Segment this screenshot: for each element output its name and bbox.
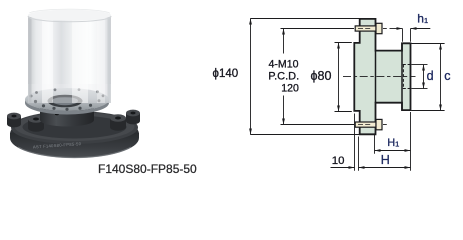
phi80 arrows [337, 43, 340, 49]
photo: holder hub body below top face [40, 108, 94, 127]
dim phi80 line [338, 43, 340, 112]
dim c extension top [411, 43, 444, 45]
dim h1 left line [390, 28, 403, 30]
dim d line [423, 65, 425, 89]
svg-text:F140S80-FP85-50: F140S80-FP85-50 [98, 162, 197, 176]
center bore [48, 95, 83, 108]
h1 arrows (pointing inward at extensions) [397, 27, 403, 30]
photo: base flange (dark metal) [10, 111, 139, 158]
svg-text:H1: H1 [387, 137, 399, 149]
extension plate left face down [354, 114, 356, 171]
photo: bolt boss back-left [7, 113, 21, 128]
photo: bolt boss back-right [126, 110, 140, 125]
svg-text:ϕ140: ϕ140 [213, 68, 239, 80]
bolt M10 top [355, 23, 382, 33]
dim PCD line upper segment [283, 29, 285, 54]
bore hidden lines (d) [403, 65, 410, 89]
section boundary hub/lip [401, 43, 403, 110]
dim h1 extension left [402, 29, 404, 42]
bolt axis stub bottom [383, 124, 387, 126]
H1 arrows [375, 149, 381, 152]
svg-text:10: 10 [332, 155, 345, 167]
screw holes on face [30, 95, 33, 98]
svg-text:h1: h1 [417, 11, 428, 25]
photo: clear tube wall [28, 15, 111, 103]
dim c extension bottom [411, 110, 444, 112]
dim d extension bottom [412, 88, 428, 90]
dimension texts [213, 58, 345, 167]
bolt axis stub top [383, 28, 387, 30]
H arrows [359, 166, 365, 169]
svg-text:P.C.D.: P.C.D. [268, 70, 299, 82]
dim phi80 extension bottom [335, 111, 352, 113]
dim phi140 extension top [250, 18, 365, 20]
d arrows [422, 65, 425, 71]
dim H line [359, 167, 411, 169]
svg-text:ϕ80: ϕ80 [311, 69, 332, 83]
extension boss face down [358, 137, 360, 171]
dim h1 extension right [410, 29, 412, 42]
phi140 top/bottom arrows [249, 19, 252, 25]
dim c line [440, 44, 442, 111]
bolt M10 bottom [355, 119, 382, 129]
dim phi140 line [250, 19, 252, 135]
dim d extension top [412, 64, 428, 66]
extension lip right down [410, 112, 412, 171]
svg-text:4-M10: 4-M10 [269, 58, 299, 70]
PCD arrows [282, 29, 285, 35]
10 arrow [349, 166, 355, 169]
dim h1 right line [411, 28, 431, 30]
dim PCD extension bottom (bolt axis) [281, 124, 355, 126]
c arrows [439, 44, 442, 50]
photo: holder top face (seen through clear tube) [25, 88, 109, 115]
dim 10 line [331, 167, 355, 169]
svg-text:120: 120 [281, 82, 299, 94]
dim PCD line lower segment [283, 96, 285, 125]
flange cross-section body [354, 19, 410, 134]
dim H1 line [375, 150, 411, 152]
svg-text:c: c [444, 69, 450, 83]
centerline [343, 76, 416, 78]
svg-text:H: H [381, 153, 390, 167]
photo: tube reflections over face [28, 9, 111, 103]
arrowheads [249, 19, 442, 169]
photo: bolt boss front-right [110, 114, 126, 131]
extension bolt head down [374, 132, 376, 154]
photo: bolt boss front-left [28, 115, 44, 132]
section boundary plate/hub [375, 51, 377, 103]
dim phi80 extension top [335, 42, 352, 44]
dim phi140 extension bottom [250, 134, 365, 136]
svg-text:d: d [427, 69, 434, 83]
dim PCD extension top (bolt axis) [281, 28, 355, 30]
